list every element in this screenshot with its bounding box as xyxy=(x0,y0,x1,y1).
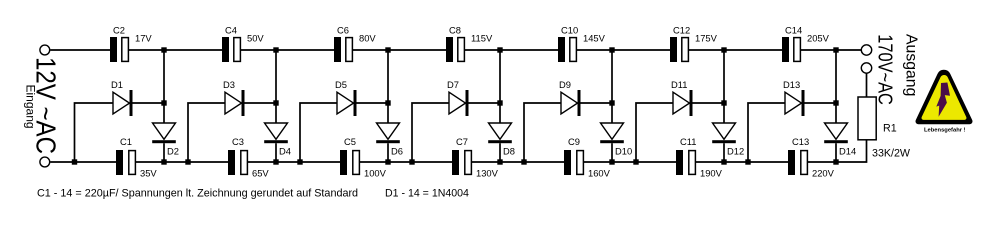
svg-text:65V: 65V xyxy=(252,168,269,179)
wire anode riser D9 xyxy=(524,103,561,162)
diode D4 xyxy=(264,123,288,162)
svg-text:Ausgang: Ausgang xyxy=(903,34,920,96)
node junction diode row D7 cathode xyxy=(497,100,502,105)
diode D13 xyxy=(785,90,836,116)
diode D14 xyxy=(824,123,848,162)
svg-text:D11: D11 xyxy=(671,79,688,90)
wire anode riser D1 xyxy=(75,103,114,162)
svg-text:D2: D2 xyxy=(167,146,179,157)
capacitor C8 xyxy=(446,37,464,62)
svg-text:115V: 115V xyxy=(471,33,493,44)
svg-text:C2: C2 xyxy=(113,25,125,36)
node junction bottom rail D12 xyxy=(721,159,726,164)
svg-text:D10: D10 xyxy=(615,146,632,157)
svg-text:C13: C13 xyxy=(792,136,809,147)
diode D7 xyxy=(449,90,500,116)
svg-text:C5: C5 xyxy=(344,136,356,147)
node junction bottom rail D14 xyxy=(833,159,838,164)
svg-text:33K/2W: 33K/2W xyxy=(872,147,911,159)
label 12V ~AC input xyxy=(30,57,61,154)
node junction top rail C10 xyxy=(609,47,614,52)
capacitor C9 xyxy=(564,150,583,175)
svg-text:190V: 190V xyxy=(700,168,723,179)
capacitor C12 xyxy=(670,37,688,62)
wire input to C2 xyxy=(50,49,110,51)
node junction top rail C6 xyxy=(385,47,390,52)
svg-text:C10: C10 xyxy=(561,25,578,36)
wire output terminal to R1 xyxy=(866,73,868,97)
svg-text:C3: C3 xyxy=(232,136,244,147)
capacitor C2 xyxy=(110,37,128,62)
svg-text:Lebensgefahr !: Lebensgefahr ! xyxy=(924,127,966,133)
wire top rail xyxy=(688,49,782,51)
svg-text:C8: C8 xyxy=(449,25,461,36)
svg-text:D14: D14 xyxy=(839,146,856,157)
node junction top rail C2 xyxy=(161,47,166,52)
node junction diode row D11 cathode xyxy=(721,100,726,105)
svg-text:C12: C12 xyxy=(673,25,690,36)
svg-text:D9: D9 xyxy=(559,79,571,90)
node junction diode row D3 cathode xyxy=(273,100,278,105)
wire bottom rail xyxy=(247,161,340,163)
label Ausgang xyxy=(903,34,920,96)
capacitor C6 xyxy=(334,37,352,62)
resistor R1 xyxy=(858,97,876,140)
diode D2 xyxy=(152,123,176,162)
input terminal top xyxy=(40,45,50,55)
wire 388 vertical xyxy=(387,50,389,123)
wire top rail xyxy=(576,49,670,51)
svg-text:C14: C14 xyxy=(785,25,802,36)
svg-text:80V: 80V xyxy=(359,33,376,44)
svg-text:D5: D5 xyxy=(335,79,347,90)
svg-text:220V: 220V xyxy=(812,168,835,179)
wire anode riser D11 xyxy=(636,103,673,162)
output terminal bottom xyxy=(861,63,871,73)
wire top rail to output xyxy=(800,49,861,51)
svg-text:C9: C9 xyxy=(568,136,580,147)
capacitor C1 xyxy=(116,150,135,175)
svg-text:C1: C1 xyxy=(120,136,132,147)
capacitor C14 xyxy=(782,37,800,62)
wire 500 vertical xyxy=(499,50,501,123)
wire bottom rail xyxy=(359,161,452,163)
diode D1 xyxy=(113,90,164,116)
wire 836 vertical xyxy=(835,50,837,123)
node junction bottom rail D1 anode xyxy=(72,159,77,164)
node junction bottom rail D8 xyxy=(497,159,502,164)
node junction top rail C14 xyxy=(833,47,838,52)
wire 724 vertical xyxy=(723,50,725,123)
diode D8 xyxy=(488,123,512,162)
diode D11 xyxy=(673,90,724,116)
svg-text:D7: D7 xyxy=(447,79,459,90)
svg-text:35V: 35V xyxy=(140,168,157,179)
node junction diode row D13 cathode xyxy=(833,100,838,105)
node junction diode row D1 cathode xyxy=(161,100,166,105)
label Eingang xyxy=(24,85,38,129)
svg-text:160V: 160V xyxy=(588,168,611,179)
wire bottom rail xyxy=(695,161,788,163)
svg-text:145V: 145V xyxy=(583,33,606,44)
diode D9 xyxy=(561,90,612,116)
svg-text:C1 - 14 = 220µF/ Spannungen lt: C1 - 14 = 220µF/ Spannungen lt. Zeichnun… xyxy=(37,188,358,200)
node junction bottom rail D5 anode xyxy=(297,159,302,164)
wire anode riser D3 xyxy=(188,103,225,162)
node junction bottom rail D9 anode xyxy=(521,159,526,164)
capacitor C3 xyxy=(228,150,247,175)
output terminal top xyxy=(861,45,871,55)
node junction bottom rail D2 xyxy=(161,159,166,164)
label 170V~AC output xyxy=(874,34,896,105)
svg-text:17V: 17V xyxy=(135,33,152,44)
wire input to C1 xyxy=(50,161,116,163)
capacitor C10 xyxy=(558,37,576,62)
svg-text:Eingang: Eingang xyxy=(24,85,38,129)
wire anode riser D13 xyxy=(748,103,785,162)
diode D5 xyxy=(337,90,388,116)
svg-text:D6: D6 xyxy=(391,146,403,157)
wire anode riser D5 xyxy=(300,103,337,162)
wire 612 vertical xyxy=(611,50,613,123)
svg-text:C4: C4 xyxy=(225,25,237,36)
diode D6 xyxy=(376,123,400,162)
node junction top rail C8 xyxy=(497,47,502,52)
svg-text:175V: 175V xyxy=(695,33,718,44)
node junction bottom rail D6 xyxy=(385,159,390,164)
diode D10 xyxy=(600,123,624,162)
node junction bottom rail D11 anode xyxy=(633,159,638,164)
svg-text:170V~AC: 170V~AC xyxy=(874,34,896,105)
svg-text:D13: D13 xyxy=(783,79,800,90)
wire top rail xyxy=(464,49,558,51)
wire bottom rail to R1 xyxy=(807,140,866,162)
wire 164 vertical xyxy=(163,50,165,123)
svg-text:D3: D3 xyxy=(223,79,235,90)
svg-text:D1: D1 xyxy=(111,79,123,90)
node junction bottom rail D7 anode xyxy=(409,159,414,164)
input terminal bottom xyxy=(40,157,50,167)
capacitor C13 xyxy=(788,150,807,175)
svg-text:D1 - 14 = 1N4004: D1 - 14 = 1N4004 xyxy=(385,188,469,200)
node junction bottom rail D4 xyxy=(273,159,278,164)
node junction bottom rail D13 anode xyxy=(745,159,750,164)
wire top rail xyxy=(352,49,446,51)
svg-text:C7: C7 xyxy=(456,136,468,147)
node junction bottom rail D10 xyxy=(609,159,614,164)
svg-text:R1: R1 xyxy=(883,123,897,135)
svg-text:D12: D12 xyxy=(727,146,744,157)
wire anode riser D7 xyxy=(412,103,449,162)
capacitor C5 xyxy=(340,150,359,175)
svg-text:50V: 50V xyxy=(247,33,264,44)
svg-text:D8: D8 xyxy=(503,146,515,157)
node junction top rail C4 xyxy=(273,47,278,52)
node junction bottom rail D3 anode xyxy=(185,159,190,164)
capacitor C7 xyxy=(452,150,471,175)
wire top rail xyxy=(240,49,334,51)
svg-text:205V: 205V xyxy=(807,33,830,44)
node junction diode row D9 cathode xyxy=(609,100,614,105)
node junction top rail C12 xyxy=(721,47,726,52)
wire top rail xyxy=(128,49,222,51)
svg-text:C6: C6 xyxy=(337,25,349,36)
wire bottom rail xyxy=(135,161,228,163)
wire bottom rail xyxy=(583,161,676,163)
capacitor C4 xyxy=(222,37,240,62)
wire bottom rail xyxy=(471,161,564,163)
capacitor C11 xyxy=(676,150,695,175)
diode D12 xyxy=(712,123,736,162)
svg-text:130V: 130V xyxy=(476,168,499,179)
svg-text:100V: 100V xyxy=(364,168,387,179)
diode D3 xyxy=(225,90,276,116)
svg-text:D4: D4 xyxy=(279,146,291,157)
wire 276 vertical xyxy=(275,50,277,123)
node junction diode row D5 cathode xyxy=(385,100,390,105)
warning triangle sign xyxy=(916,70,973,125)
svg-text:C11: C11 xyxy=(680,136,697,147)
